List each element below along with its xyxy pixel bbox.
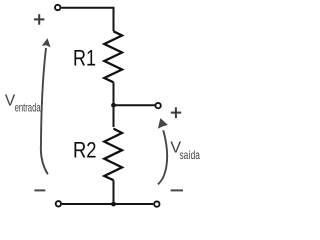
- wire bottom rail: [62, 203, 153, 205]
- terminal middle-right: [155, 103, 160, 108]
- svg-text:entrada: entrada: [15, 100, 41, 114]
- arrow Vsaida shaft: [158, 130, 167, 184]
- terminal bottom-right: [154, 201, 159, 206]
- svg-text:saída: saída: [180, 148, 201, 162]
- plus top-left: [34, 14, 44, 25]
- node middle junction: [111, 103, 116, 108]
- arrow Vsaida head: [158, 118, 168, 129]
- minus bottom-left: [34, 189, 45, 191]
- minus bottom-right: [171, 189, 183, 191]
- terminal top-left: [55, 5, 60, 10]
- wire middle branch: [114, 104, 156, 106]
- wire top horizontal and right vertical to R1: [61, 8, 113, 32]
- terminal bottom-left: [56, 201, 61, 206]
- wire R1 bottom to middle node: [113, 82, 115, 127]
- svg-text:R1: R1: [73, 46, 96, 71]
- plus right: [171, 107, 181, 118]
- resistor R1: [104, 31, 122, 82]
- svg-text:R2: R2: [73, 137, 97, 162]
- arrow Ventrada head: [42, 38, 51, 47]
- node bottom junction: [111, 202, 116, 207]
- arrow Ventrada shaft: [41, 48, 48, 174]
- resistor R2: [104, 129, 122, 181]
- wire R2 bottom to bottom rail: [113, 180, 115, 204]
